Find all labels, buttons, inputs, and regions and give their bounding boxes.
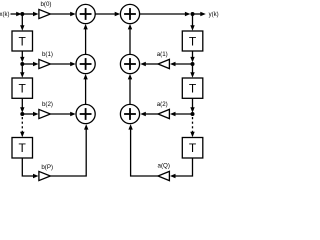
wire J5 down to delay T5 — [190, 64, 194, 78]
gain b(0) triangle — [39, 9, 51, 18]
wire delay T1 to junction J3 — [20, 51, 24, 62]
delay T5 — [182, 78, 203, 98]
wire gain aQ left and up to summer S6 — [128, 124, 158, 176]
label b(P) — [41, 164, 53, 171]
gain b(2) triangle — [39, 109, 51, 118]
wire delay T6 down and left to gain aQ — [170, 158, 193, 178]
node y(k) output label — [209, 12, 219, 18]
junction J4 — [20, 112, 24, 116]
wire J2 to output y(k) — [193, 12, 206, 16]
wire gain b0 to summer S1 — [50, 12, 75, 16]
svg-text:T: T — [19, 141, 27, 155]
wire J1 to gain b0 — [22, 12, 38, 16]
delay T2 — [12, 78, 33, 98]
svg-text:a(2): a(2) — [157, 101, 168, 108]
wire J2 down to delay T4 — [190, 14, 194, 31]
wire J5 left to gain a1 — [170, 62, 193, 66]
svg-text:x(k): x(k) — [0, 12, 10, 18]
label b(0) — [40, 1, 51, 8]
summer S3 — [76, 54, 95, 73]
label a(1) — [157, 51, 168, 58]
summer S6 — [120, 104, 139, 123]
wire gain a2 to summer S6 — [140, 112, 158, 116]
gain b(P) triangle — [39, 171, 51, 180]
label b(2) — [42, 101, 53, 108]
summer S4 — [120, 54, 139, 73]
wire J6 dashed down to delay T6 — [190, 117, 194, 137]
wire summer S5 up to summer S3 — [83, 74, 87, 105]
label b(1) — [42, 51, 53, 58]
wire gain b1 to summer S3 — [50, 62, 75, 66]
delay T1 — [12, 31, 33, 51]
wire summer S6 up to summer S4 — [128, 74, 132, 105]
svg-text:b(2): b(2) — [42, 101, 53, 108]
wire J6 left to gain a2 — [170, 112, 193, 116]
label a(2) — [157, 101, 168, 108]
wire delay T2 to junction J4 — [20, 98, 24, 112]
gain a(Q) triangle — [158, 171, 169, 180]
wire summer S1 to summer S2 — [95, 12, 120, 16]
svg-text:T: T — [189, 141, 197, 155]
summer S1 — [76, 4, 95, 23]
junction J5 — [191, 62, 195, 66]
junction J3 — [20, 62, 24, 66]
wire input x(k) to junction J1 — [11, 12, 22, 16]
gain b(1) triangle — [39, 59, 51, 68]
wire delay T4 to junction J5 — [190, 51, 194, 62]
wire gain bP right and up to summer S5 — [50, 124, 88, 176]
svg-text:a(Q): a(Q) — [158, 162, 170, 169]
wire summer S4 up to summer S2 — [128, 24, 132, 55]
summer S5 — [76, 104, 95, 123]
wire J4 dashed down to delay T3 — [20, 117, 24, 137]
wire summer S3 up to summer S1 — [83, 24, 87, 55]
wire summer S2 to junction J2 — [140, 12, 191, 16]
svg-text:T: T — [19, 82, 27, 96]
label a(Q) — [158, 162, 170, 169]
wire J3 down to delay T2 — [20, 64, 24, 78]
svg-text:T: T — [189, 34, 197, 48]
svg-text:b(0): b(0) — [40, 1, 51, 8]
wire gain a1 to summer S4 — [140, 62, 158, 66]
wire J3 to gain b1 — [22, 62, 38, 66]
svg-text:b(P): b(P) — [41, 164, 53, 171]
wire delay T3 down and right to gain bP — [22, 158, 38, 178]
wire J4 to gain b2 — [22, 112, 38, 116]
node x(k) input label — [0, 12, 10, 18]
svg-text:T: T — [189, 82, 197, 96]
delay T3 — [12, 138, 33, 159]
gain a(1) triangle — [158, 59, 169, 68]
junction J1 — [20, 12, 24, 16]
delay T6 — [182, 138, 203, 159]
junction J2 — [191, 12, 195, 16]
gain a(2) triangle — [158, 109, 169, 118]
svg-text:b(1): b(1) — [42, 51, 53, 58]
delay T4 — [182, 31, 203, 51]
svg-text:a(1): a(1) — [157, 51, 168, 58]
summer S2 — [120, 4, 139, 23]
svg-text:y(k): y(k) — [209, 12, 219, 18]
wire delay T5 to junction J6 — [190, 98, 194, 112]
svg-text:T: T — [19, 34, 27, 48]
wire J1 down to delay T1 — [20, 14, 24, 31]
wire gain b2 to summer S5 — [50, 112, 75, 116]
junction J6 — [191, 112, 195, 116]
